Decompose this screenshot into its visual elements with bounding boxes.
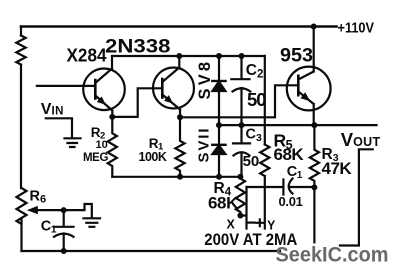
- transistor Q2 2N338: [153, 68, 194, 109]
- svg-text:Y: Y: [267, 218, 276, 232]
- svg-text:X284: X284: [67, 45, 108, 66]
- svg-text:R6: R6: [30, 189, 47, 206]
- svg-text:953: 953: [280, 45, 313, 66]
- wire bottom bus: [22, 250, 281, 252]
- resistor R6: [17, 188, 27, 224]
- wire left rail middle: [20, 65, 22, 188]
- transistor Q1 X284: [83, 69, 125, 111]
- svg-text:10: 10: [96, 139, 108, 151]
- svg-text:+110V: +110V: [338, 20, 375, 37]
- ground (near R6/C1): [84, 218, 101, 227]
- node Q1 emitter junction: [109, 114, 115, 120]
- wire Q2 emitter to Q3 base: [180, 85, 298, 117]
- capacitor C1 (input, lower left): [54, 210, 74, 251]
- node Q2 collector junction: [176, 53, 182, 59]
- wire VIN input to Q1 base: [37, 85, 95, 87]
- wire VIN ground stub: [46, 118, 72, 137]
- node Q3 emitter / R3 junction: [311, 122, 317, 128]
- capacitor C1 (coupling 0.01): [283, 179, 314, 195]
- resistor R1: [175, 117, 184, 177]
- wire output node drop: [313, 187, 315, 242]
- svg-text:C1: C1: [41, 219, 57, 236]
- resistor R4: [236, 177, 245, 216]
- capacitor C3: [233, 125, 250, 177]
- svg-text:47K: 47K: [322, 159, 353, 178]
- svg-text:68K: 68K: [208, 194, 239, 213]
- svg-text:SV8: SV8: [196, 59, 214, 100]
- node R4 bottom / X terminal junction: [237, 213, 243, 219]
- svg-text:0.01: 0.01: [279, 194, 303, 209]
- svg-text:VOUT: VOUT: [341, 129, 381, 150]
- node R1 bottom junction: [177, 174, 183, 180]
- capacitor C2: [231, 56, 250, 125]
- wire VOUT terminal: [340, 149, 373, 245]
- svg-text:50: 50: [247, 89, 266, 110]
- svg-text:100K: 100K: [139, 150, 167, 164]
- wire X terminal lead: [240, 187, 246, 229]
- svg-text:SVII: SVII: [196, 127, 213, 163]
- svg-text:68K: 68K: [274, 145, 305, 164]
- node Q3 collector / +110V rail junction: [311, 24, 317, 30]
- svg-text:SeekIC.com: SeekIC.com: [276, 244, 389, 267]
- wire Y terminal lead: [264, 176, 266, 229]
- node C1/R6 wiper junction: [61, 207, 67, 213]
- svg-text:MEG: MEG: [83, 152, 108, 164]
- resistor R3: [310, 125, 319, 187]
- svg-text:C1: C1: [287, 164, 303, 181]
- wire left rail upper: [20, 27, 22, 36]
- node C3 bottom / R4 top junction: [237, 174, 243, 180]
- wire Q1 emitter to Q2 base: [112, 88, 162, 117]
- polarity mark -: [247, 222, 254, 224]
- svg-text:VIN: VIN: [41, 101, 64, 118]
- wire emitter bus B: [219, 124, 377, 126]
- node R3 / C1 / output junction: [311, 184, 317, 190]
- node C1 bottom / bus junction: [61, 248, 67, 254]
- wire X node to C1 coupling cap: [247, 186, 284, 188]
- node SV8 top junction: [216, 53, 222, 59]
- resistor (unlabeled, left rail): [16, 36, 25, 65]
- node C2 top junction: [239, 53, 245, 59]
- svg-text:50: 50: [243, 153, 260, 170]
- node SV8 bottom / SV11 top junction: [216, 122, 222, 128]
- diode SV8: [218, 56, 220, 125]
- transistor Q3 953: [287, 67, 331, 111]
- diode SV11: [218, 125, 220, 177]
- node SV11 bottom junction: [216, 174, 222, 180]
- node Q2 emitter junction: [177, 114, 183, 120]
- resistor R2: [108, 117, 117, 177]
- wire left rail lower: [20, 219, 22, 251]
- wire collector rail (Q1/Q2 collectors to R5): [112, 55, 265, 57]
- svg-text:C3: C3: [246, 127, 262, 145]
- wire lower bus C (R2/R1/SV11/R4 node): [112, 176, 240, 178]
- ground (input): [65, 138, 81, 147]
- wire +110V top rail: [21, 25, 337, 28]
- wire R6 wiper arrow: [36, 204, 92, 217]
- svg-text:2N338: 2N338: [105, 37, 171, 58]
- wire R5 drop from collector rail: [264, 56, 266, 145]
- polarity mark +: [257, 220, 264, 227]
- svg-text:X: X: [227, 217, 236, 231]
- node C2 bottom / C3 top junction: [239, 122, 245, 128]
- resistor R5: [260, 145, 269, 176]
- svg-text:C2: C2: [246, 62, 264, 81]
